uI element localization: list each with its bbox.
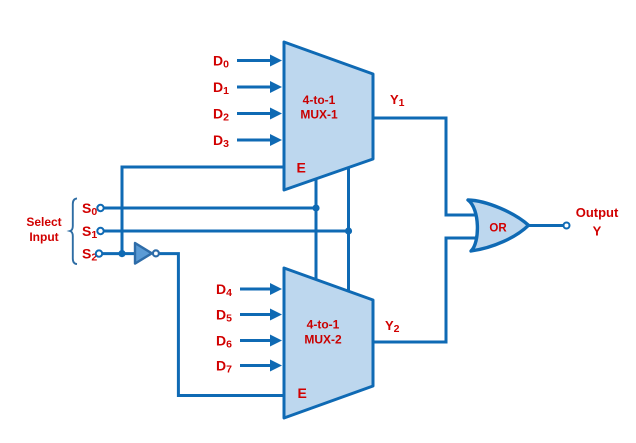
mux U2 4-to-1 MUX-2 body [284, 268, 373, 418]
svg-text:OR: OR [489, 223, 507, 235]
input arrow D3 [237, 139, 272, 142]
or-gate U3 [468, 200, 529, 251]
input arrow D1 [237, 86, 272, 89]
wire: select vertical S1 between MUX-1 bottom and MUX-2 top [347, 167, 350, 292]
svg-text:Output: Output [576, 205, 619, 220]
svg-text:4-to-1: 4-to-1 [307, 318, 340, 332]
input arrow D6 [240, 339, 272, 342]
wire: select vertical S0 between MUX-1 bottom and MUX-2 top [315, 178, 318, 281]
junction dot S1 [345, 227, 352, 234]
wire: select line S0 horizontal run [103, 207, 316, 210]
inverter NOT gate on S2 [135, 243, 152, 264]
inverter bubble [153, 250, 159, 256]
junction dot S0 [312, 204, 319, 211]
input arrow D5 [240, 313, 272, 316]
input arrow D7 [240, 364, 272, 367]
svg-text:E: E [298, 385, 307, 401]
wire: Y1 from MUX-1 output right and down to OR gate top input [373, 118, 478, 215]
svg-text:E: E [297, 160, 306, 176]
terminal circle S0 [97, 205, 103, 211]
svg-text:Input: Input [29, 230, 58, 244]
brace for select inputs [70, 198, 77, 264]
svg-text:MUX-1: MUX-1 [300, 108, 338, 122]
terminal circle S2 [96, 250, 102, 256]
terminal circle S1 [97, 228, 103, 234]
mux U1 4-to-1 MUX-1 body [284, 42, 373, 190]
svg-text:Y: Y [593, 224, 602, 239]
wire: E of MUX-1 from S2 junction up and right to MUX-1 E input [122, 167, 284, 254]
wire: select line S2 from terminal to inverter input [102, 252, 136, 255]
svg-text:Select: Select [26, 215, 61, 229]
wire: select line S1 horizontal run [103, 230, 349, 233]
wire: OR gate output to terminal [529, 224, 563, 227]
input arrow D0 [237, 59, 272, 62]
terminal circle output Y [564, 223, 570, 229]
input arrow D2 [237, 112, 272, 115]
input arrow D4 [240, 288, 272, 291]
svg-text:MUX-2: MUX-2 [304, 333, 342, 347]
junction dot S2 to MUX-1 E [118, 250, 125, 257]
svg-text:4-to-1: 4-to-1 [303, 93, 336, 107]
wire: Y2 from MUX-2 output right and up to OR gate bottom input [373, 238, 478, 342]
wire: inverted S2 from inverter bubble right and down to E of MUX-2 [159, 254, 284, 396]
